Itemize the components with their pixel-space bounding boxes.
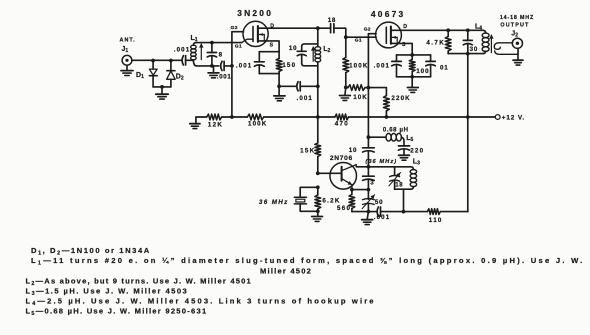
ground J2 (517, 48, 519, 60)
capacitor 3 (367, 167, 369, 176)
node S-net bottom (277, 84, 281, 88)
svg-text:10K: 10K (353, 94, 368, 101)
resistor 470 (335, 114, 349, 120)
node 220K to rail (385, 115, 389, 119)
svg-text:S: S (270, 43, 274, 49)
svg-text:220: 220 (410, 147, 424, 154)
slug arrow L2 (312, 47, 314, 61)
node G2 bias (367, 86, 371, 90)
svg-text:18: 18 (395, 182, 403, 188)
svg-text:8: 8 (219, 51, 223, 58)
svg-text:J2: J2 (511, 30, 518, 38)
capacitor 30 (467, 30, 469, 40)
transistor Q2 40673 body (376, 22, 402, 48)
node D2 top (169, 59, 173, 63)
svg-text:D: D (270, 24, 274, 30)
resistor 150 (278, 52, 280, 59)
node collector-10 (367, 165, 371, 169)
wire L2 feed lower (317, 62, 319, 117)
capacitor 10 osc (363, 147, 375, 149)
40673 substrate arrow (396, 37, 398, 43)
connector J2 (512, 38, 522, 48)
wire emitter to cap line (352, 189, 369, 191)
svg-text:40673: 40673 (371, 9, 406, 19)
svg-text:.001: .001 (374, 214, 390, 221)
svg-text:4.7K: 4.7K (426, 40, 445, 47)
svg-text:560: 560 (337, 205, 351, 212)
svg-text:.001: .001 (374, 63, 390, 70)
wire output tank bottom (448, 53, 483, 55)
svg-text:0.68 µH: 0.68 µH (383, 128, 409, 134)
svg-text:18: 18 (328, 17, 336, 24)
link winding to J2 (494, 43, 512, 50)
wire S of 40673 (400, 43, 412, 55)
wire rail a (222, 116, 248, 118)
wire S-net bottom rail (259, 73, 279, 75)
ground under D1 D2 (161, 87, 163, 94)
ground rail left (196, 117, 207, 123)
svg-text:Miller 4502: Miller 4502 (260, 267, 312, 276)
ground L1 tank (213, 66, 215, 73)
node tank to out line (402, 210, 406, 214)
svg-text:.001: .001 (297, 95, 313, 102)
ground 220 (399, 154, 410, 156)
svg-text:100K: 100K (248, 121, 267, 128)
svg-text:.001: .001 (236, 63, 252, 70)
wire L1 tank bottom (196, 65, 219, 67)
trimmer 18 (390, 176, 400, 177)
transistor Q1 3N200 body (243, 21, 268, 46)
node rail L2line (316, 115, 320, 119)
wire rail b (264, 116, 335, 118)
node 30 top (466, 28, 470, 32)
capacitor .001 antenna (182, 56, 183, 65)
wire collector rail (356, 167, 413, 170)
node bottom gnd (367, 210, 371, 214)
resistor 10K (348, 85, 365, 91)
node base (316, 171, 320, 175)
3N200 drain stub + wire (258, 27, 318, 29)
capacitor 10 (301, 47, 303, 52)
2N706 collector (342, 165, 357, 171)
inductor L1 (191, 45, 196, 49)
svg-text:L5: L5 (406, 135, 413, 143)
crystal branch top (316, 185, 320, 189)
3N200 source stub (258, 40, 267, 42)
node 8pF bottom (210, 64, 214, 68)
ground bottom line (367, 212, 368, 220)
svg-text:(36 MHz): (36 MHz) (365, 159, 397, 165)
svg-text:30: 30 (470, 46, 478, 53)
40673 drain stub + rail (391, 29, 448, 31)
terminal +12V (495, 115, 500, 120)
svg-text:L4—2.5 µH. Use J. W. Miller 45: L4—2.5 µH. Use J. W. Miller 4503. Link 3… (26, 296, 376, 307)
wire L2 tank bottom (302, 63, 318, 66)
svg-text:110: 110 (429, 217, 443, 224)
wire diode bottoms (153, 86, 171, 88)
inductor L3 (410, 170, 416, 174)
svg-text:D: D (403, 24, 407, 30)
node L2 to coupling (316, 84, 320, 88)
svg-text:G1: G1 (235, 43, 242, 49)
node drain rail to L2 (316, 26, 320, 30)
ground 100K (344, 87, 347, 95)
node D1 top (151, 59, 155, 63)
node 4.7K top (446, 28, 450, 32)
svg-text:100K: 100K (349, 63, 368, 70)
resistor 12K (207, 114, 222, 120)
svg-text:ANT.: ANT. (120, 37, 136, 43)
node rail +12 feed (466, 115, 470, 119)
svg-text:10: 10 (349, 147, 357, 154)
resistor 100K gate (345, 37, 347, 57)
svg-text:.001: .001 (174, 46, 190, 53)
svg-text:2N706: 2N706 (330, 155, 353, 162)
node emitter (350, 188, 354, 192)
svg-text:470: 470 (335, 121, 349, 128)
resistor 15K (317, 117, 319, 143)
wire base (318, 172, 342, 174)
wire +12 feed vertical (467, 54, 469, 212)
3N200 substrate arrow (263, 35, 265, 41)
svg-text:50: 50 (375, 199, 383, 206)
node rail G2line (230, 115, 234, 119)
wire S-net top rail (259, 51, 279, 53)
svg-text:100: 100 (416, 68, 429, 75)
svg-text:150: 150 (282, 62, 296, 69)
resistor 560 (351, 190, 353, 195)
svg-text:L2—As above, but 9 turns. Use: L2—As above, but 9 turns. Use J. W. Mill… (26, 276, 252, 287)
svg-text:10: 10 (289, 45, 297, 52)
capacitor 8 (211, 43, 213, 53)
wire L2 feed upper (317, 28, 319, 47)
transistor Q3 2N706 body (330, 163, 357, 190)
capacitor .001 S2 (396, 55, 398, 62)
trimmer 50 (367, 190, 369, 200)
capacitor .001 to G1 line (221, 61, 222, 70)
svg-text:6.2K: 6.2K (322, 198, 340, 205)
capacitor 18 (318, 27, 331, 29)
wire L3 tank bottom (395, 188, 411, 190)
svg-text:L3—1.5 µH. Use J. W. Miller 45: L3—1.5 µH. Use J. W. Miller 4503 (26, 286, 189, 297)
svg-text:01: 01 (440, 65, 448, 72)
crystal Y1 36MHz (294, 196, 306, 198)
svg-text:L4: L4 (475, 24, 482, 32)
svg-text:15K: 15K (300, 148, 315, 155)
wire G2 of 40673 upper (368, 34, 376, 148)
svg-text:L1: L1 (191, 35, 198, 43)
wire to L5 (368, 136, 386, 138)
svg-text:G2: G2 (231, 25, 238, 31)
node S2 bottom (410, 75, 414, 79)
svg-text:L2: L2 (323, 46, 330, 54)
resistor 110 (427, 209, 440, 215)
svg-text:G1: G1 (355, 38, 362, 44)
40673 source stub (391, 42, 400, 44)
wire S2-net bottom rail (397, 76, 431, 78)
svg-text:.001: .001 (217, 74, 232, 80)
svg-text:3N200: 3N200 (237, 8, 273, 18)
node 3-50 junction (367, 188, 371, 192)
wire G1 of 40673 (346, 36, 376, 38)
node diode ground (160, 85, 164, 89)
capacitor .001 source (258, 52, 260, 62)
inductor L2 (315, 47, 321, 51)
svg-text:12K: 12K (208, 121, 223, 128)
svg-text:L3: L3 (413, 158, 420, 166)
wire G1 entry (242, 39, 253, 42)
resistor 220K (384, 96, 390, 111)
inductor L4 (482, 33, 489, 38)
svg-text:220K: 220K (391, 95, 410, 102)
capacitor .01 S2 (430, 55, 432, 62)
resistor 6.2K (317, 187, 319, 195)
node S2 top (410, 53, 414, 57)
slug arrow L1 (200, 44, 202, 59)
node L5 line (367, 135, 371, 139)
ground at J1 (126, 65, 128, 70)
wire L1 tank top (196, 42, 242, 44)
wire G2 of 3N200 (232, 32, 244, 117)
resistor 4.7K (447, 30, 449, 36)
svg-text:OUTPUT: OUTPUT (500, 22, 529, 28)
slug arrow L4 (490, 35, 492, 52)
wire S2-net top rail (397, 54, 431, 56)
node G2-line tap (230, 64, 234, 68)
diode D2 (170, 61, 172, 71)
svg-text:3: 3 (370, 179, 374, 186)
svg-text:36 MHz: 36 MHz (259, 199, 289, 206)
svg-text:D2: D2 (176, 74, 184, 82)
svg-text:J1: J1 (122, 46, 129, 54)
wire to .001 coupling (279, 85, 297, 87)
wire C-ant to L1 (186, 59, 193, 61)
wire to 220K (368, 88, 386, 96)
svg-text:14-18 MHZ: 14-18 MHZ (500, 15, 534, 21)
inductor L5 0.68uH (386, 133, 391, 141)
wire rail c (349, 116, 496, 118)
wire J1 to C-ant (132, 59, 181, 61)
wire osc bottom line (352, 211, 377, 213)
2N706 emitter (342, 179, 352, 185)
svg-text:+12 V.: +12 V. (502, 115, 525, 122)
ground S2 (411, 77, 413, 87)
diode D1 (152, 61, 154, 70)
node 8pF top (210, 41, 214, 45)
resistor 100K rail (247, 114, 263, 120)
svg-text:D1: D1 (136, 72, 144, 80)
capacitor .001 osc out (377, 207, 378, 216)
node G1 bias (344, 35, 348, 39)
ground S-net (278, 86, 280, 95)
svg-text:G2: G2 (364, 26, 371, 32)
wire L2 tank top (302, 44, 318, 47)
connector J1 (ANT.) (122, 55, 132, 65)
node 100K bottom (344, 86, 348, 90)
node crystal bottom (316, 209, 320, 213)
node tank bottom feed (466, 52, 470, 56)
capacitor 220 (398, 145, 409, 147)
wire output rail (448, 30, 485, 33)
wire S of 3N200 (266, 41, 279, 52)
resistor 100 (411, 55, 413, 60)
ground oscillator base (317, 211, 319, 216)
tank leg 18 (394, 167, 396, 175)
capacitor .001 to L2 line (297, 82, 298, 91)
